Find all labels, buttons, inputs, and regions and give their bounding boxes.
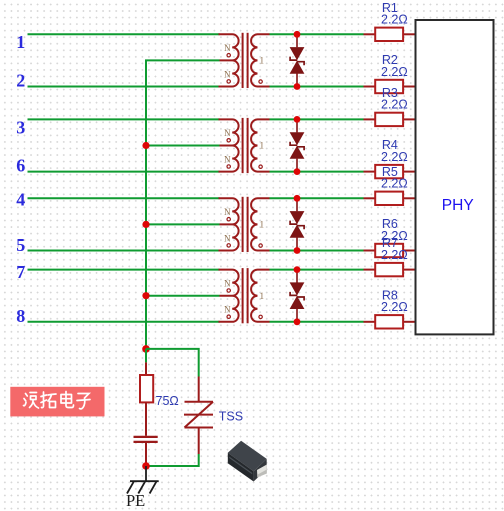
svg-text:6: 6: [16, 156, 25, 176]
wire secondary line 3: [270, 118, 364, 120]
TSS tube F1: [185, 401, 214, 403]
wire TSS branch top: [146, 349, 199, 377]
wire pin1 line: [28, 33, 220, 35]
transformer T4: [219, 268, 270, 323]
PHY block U1: [416, 20, 494, 334]
transformer T3: [219, 197, 270, 252]
svg-text:2.2Ω: 2.2Ω: [381, 150, 408, 164]
TVS diode D2: [290, 116, 305, 175]
svg-text:3: 3: [16, 117, 25, 137]
wire T4 center tap: [146, 295, 220, 297]
resistor R4: [364, 165, 416, 178]
junction T3 tap: [142, 221, 149, 228]
wire pin7 line: [28, 269, 220, 271]
svg-text:4: 4: [16, 189, 25, 209]
transformer T1: [219, 33, 270, 88]
wire TSS branch bottom: [198, 428, 200, 455]
junction bottom bus top: [142, 345, 150, 353]
wire T2 center tap: [146, 145, 220, 147]
svg-text:7: 7: [16, 262, 25, 282]
wire 75ohm branch upper: [145, 349, 147, 363]
wire to PE ground: [145, 466, 147, 481]
wire pin3 line: [28, 118, 220, 120]
wire secondary line 2: [270, 86, 364, 88]
junction T4 tap: [142, 292, 149, 299]
resistor R7: [364, 263, 416, 276]
svg-text:2.2Ω: 2.2Ω: [381, 248, 408, 262]
wire center-tap vertical bus: [146, 60, 220, 349]
wire pin5 line: [28, 250, 220, 252]
resistor R3: [364, 113, 416, 126]
junction T2 tap: [142, 142, 149, 149]
resistor R8: [364, 315, 416, 328]
svg-text:PHY: PHY: [442, 197, 474, 214]
svg-text:2: 2: [16, 71, 25, 91]
wire secondary line 4: [270, 171, 364, 173]
SMD package photo: [228, 441, 267, 482]
svg-text:2.2Ω: 2.2Ω: [381, 300, 408, 314]
svg-text:TSS: TSS: [219, 410, 243, 424]
ground PE symbol: [130, 480, 159, 482]
TVS diode D1: [290, 31, 305, 90]
resistor R2: [364, 80, 416, 93]
svg-text:8: 8: [16, 306, 25, 326]
wire pin6 line: [28, 171, 220, 173]
svg-text:75Ω: 75Ω: [156, 394, 179, 408]
watermark logo box: [10, 387, 104, 417]
wire secondary line 6: [270, 250, 364, 252]
wire secondary line 7: [270, 269, 364, 271]
wire pin2 line: [28, 86, 220, 88]
resistor R5: [364, 192, 416, 205]
wire secondary line 1: [270, 33, 364, 35]
svg-text:2.2Ω: 2.2Ω: [381, 98, 408, 112]
resistor R1: [364, 28, 416, 41]
svg-text:2.2Ω: 2.2Ω: [381, 177, 408, 191]
svg-text:5: 5: [16, 235, 25, 255]
TVS diode D4: [290, 266, 305, 325]
junction ground node: [142, 462, 150, 470]
watermark characters: [24, 392, 91, 409]
wire resistor to capacitor: [145, 402, 147, 435]
wire secondary line 8: [270, 321, 364, 323]
transformer T2: [219, 118, 270, 173]
wire pin4 line: [28, 197, 220, 199]
svg-text:2.2Ω: 2.2Ω: [381, 13, 408, 27]
resistor R9 75ohm: [140, 375, 153, 402]
wire T3 center tap: [146, 223, 220, 225]
capacitor C1: [134, 436, 158, 438]
wire pin8 line: [28, 321, 220, 323]
svg-text:PE: PE: [126, 491, 145, 510]
resistor R6: [364, 244, 416, 257]
wire secondary line 5: [270, 197, 364, 199]
wire capacitor to ground junction: [145, 443, 147, 466]
svg-text:1: 1: [16, 32, 25, 52]
TVS diode D3: [290, 195, 305, 254]
svg-text:2.2Ω: 2.2Ω: [381, 65, 408, 79]
